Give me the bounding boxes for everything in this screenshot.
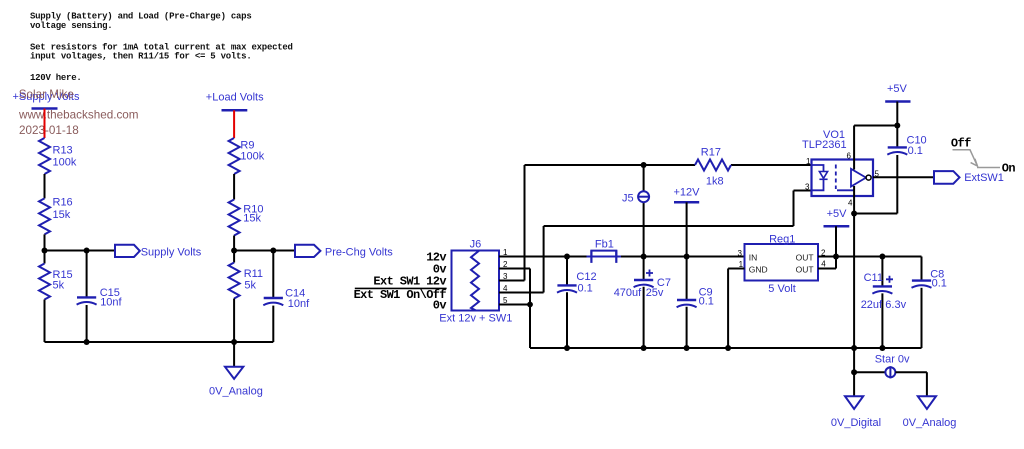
svg-text:+5V: +5V [827,208,848,220]
svg-text:+Load Volts: +Load Volts [206,92,264,104]
svg-text:Supply Volts: Supply Volts [141,246,202,258]
svg-text:15k: 15k [243,212,261,224]
svg-text:10nf: 10nf [100,296,122,308]
wire C15 branch [86,251,88,298]
wire digital bottom rail [530,347,922,349]
svg-text:0.1: 0.1 [578,282,593,294]
opto pin numbers [805,152,879,208]
wire C14 branch [272,251,274,298]
wire [44,234,46,263]
capacitor C9 [677,287,714,308]
resistor R9 [229,138,265,174]
wire C9 branch [686,257,688,349]
wire C15 bottom [86,305,88,342]
wire J6 pin2 0v [499,269,530,349]
svg-text:25v: 25v [646,287,664,299]
wire node A to flag [45,250,116,252]
ground 0V_Analog [209,367,263,398]
svg-text:22uf: 22uf [861,299,883,311]
wire node B to flag [234,250,295,252]
junction C15 top [84,248,90,254]
wire +5V stem [835,226,837,256]
svg-text:3: 3 [805,183,810,192]
ground 0V_Analog right [903,396,957,429]
svg-text:0.1: 0.1 [932,277,947,289]
svg-text:R11: R11 [244,268,263,280]
wire J6 pin1 12v rail [499,256,587,258]
opto dashed isolation line [835,165,837,190]
wire digital ground stem [853,372,855,396]
svg-text:Pre-Chg Volts: Pre-Chg Volts [325,246,393,258]
svg-text:0V_Analog: 0V_Analog [209,385,263,397]
svg-text:5k: 5k [244,280,256,292]
svg-text:+5V: +5V [887,83,908,95]
ground 0V_Digital [831,396,881,429]
svg-text:100k: 100k [53,157,77,169]
wire Reg1 OUT pin4 tie [818,257,836,269]
svg-text:4: 4 [848,198,853,207]
notes text block [30,12,293,84]
wire J6 pin4 On\Off route [499,191,812,293]
title block: author [18,88,139,137]
svg-text:Fb1: Fb1 [595,239,614,251]
wire opto pin4 down [853,196,855,348]
svg-text:1: 1 [806,157,811,166]
capacitor C14 [263,288,310,311]
svg-text:C11: C11 [864,272,883,284]
resistor R11 [229,263,263,299]
wire [44,300,46,343]
junction J5 top [641,162,647,168]
svg-text:GND: GND [749,265,768,275]
wire opto pin6 [854,126,897,160]
jumper J5 [622,191,650,204]
svg-text:3: 3 [738,249,743,258]
svg-text:R16: R16 [53,197,73,209]
svg-text:Off: Off [951,137,971,151]
svg-text:R17: R17 [701,146,721,158]
wire +5V output rail [818,257,922,281]
svg-text:J6: J6 [470,239,482,251]
wire J5 vertical [643,165,645,257]
wire opto pin5 output [873,176,934,178]
wire Reg1 GND [728,269,744,349]
resistor R10 [229,200,264,236]
power port +12V [674,187,701,203]
resistor R17 [695,146,731,187]
flag Pre-Chg Volts [295,245,393,258]
wire C8 branch [921,288,923,348]
svg-text:10nf: 10nf [288,298,310,310]
resistor R16 [39,197,73,235]
svg-text:voltage sensing.: voltage sensing. [30,21,112,31]
junction C14 top [270,248,276,254]
svg-text:J5: J5 [622,193,634,205]
svg-text:Ext 12v + SW1: Ext 12v + SW1 [439,313,512,325]
power port +Load Volts [206,92,264,111]
svg-text:R13: R13 [53,145,73,157]
svg-text:2023-01-18: 2023-01-18 [19,124,79,137]
svg-text:5k: 5k [53,280,65,292]
svg-text:100k: 100k [240,151,264,163]
junction star node [851,369,857,375]
opto pin stubs inside [853,160,855,197]
junction 12v rail dots [564,254,570,260]
flag Supply Volts [115,245,202,258]
wire C11 branch [881,257,883,349]
svg-text:www.thebackshed.com: www.thebackshed.com [18,109,139,122]
capacitor C8 [912,269,947,290]
svg-text:0.1: 0.1 [699,295,714,307]
svg-text:input voltages, then R11/15 fo: input voltages, then R11/15 for <= 5 vol… [30,52,252,62]
ferrite bead Fb1 [587,239,622,263]
svg-text:0v: 0v [433,299,447,313]
power port +5V above Reg1 [824,208,850,226]
svg-text:TLP2361: TLP2361 [802,139,847,151]
wire [233,236,235,263]
svg-text:15k: 15k [53,209,71,221]
svg-text:6.3v: 6.3v [885,299,906,311]
wire [233,174,235,200]
wire ground stem [233,342,235,367]
wire 12v rail after Fb1 [621,256,745,258]
power port +Supply Volts [13,91,80,109]
svg-text:+12V: +12V [674,187,701,199]
overline active-low [355,287,447,289]
wire [233,299,235,343]
wire analog bottom rail [45,341,274,343]
svg-text:Ext SW1 12v: Ext SW1 12v [373,275,446,289]
wire C12 branch [566,257,568,349]
wire J6 pin3 ExtSW1 12v riser [499,165,525,281]
capacitor C10 [887,135,926,157]
svg-text:0V_Analog: 0V_Analog [903,417,957,429]
svg-text:1k8: 1k8 [706,176,724,188]
wire J6 pin5 0v [499,304,530,306]
junction bottom rail dots [564,345,570,351]
junction ground node [231,339,237,345]
svg-text:5 Volt: 5 Volt [768,283,796,295]
junction C15 bottom [84,339,90,345]
wire +12V stem [686,202,688,256]
svg-text:C12: C12 [576,271,596,283]
connector J6 [439,239,512,325]
J6 pin name labels [354,251,447,313]
capacitor C12 [557,271,597,294]
wire red load stem [233,110,235,138]
svg-text:Reg1: Reg1 [769,233,795,245]
opto LED [812,165,828,190]
optocoupler VQ1 TLP2361 [802,129,873,196]
capacitor C11 [861,272,907,311]
power port +5V top [885,83,910,102]
svg-text:120V here.: 120V here. [30,73,82,83]
svg-text:IN: IN [749,253,758,263]
svg-text:OUT: OUT [796,253,814,263]
node B junction [231,248,237,254]
wire top rail ExtSW1 12v [525,164,696,166]
regulator Reg1 [738,233,827,295]
svg-text:6: 6 [847,152,852,161]
svg-text:Star 0v: Star 0v [875,354,910,366]
capacitor C15 [77,287,123,308]
J6 pin numbers [503,248,508,305]
junction pin6/+5V [894,123,900,129]
wire C14 bottom [272,306,274,342]
resistor R13 [39,138,77,174]
flag ExtSW1 [934,171,1004,184]
wire star to analog ground [895,372,927,396]
wire star 0v link [854,348,885,372]
svg-text:0.1: 0.1 [908,145,923,157]
opto output buffer [837,169,871,191]
wire red supply stem [44,109,46,139]
junction pin4 node [851,211,857,217]
svg-text:4: 4 [821,259,826,268]
capacitor C7 [614,270,671,300]
svg-text:On: On [1002,162,1016,176]
wire C10 bottom to pin4 node [854,155,897,214]
svg-text:OUT: OUT [796,265,814,275]
wire C7 branch [643,257,645,349]
annotation Off/On switch arrow [951,137,1016,176]
svg-text:ExtSW1: ExtSW1 [964,172,1004,184]
wire [44,174,46,198]
wire +5V top stem [896,102,898,148]
node A junction [42,248,48,254]
resistor R15 [39,264,73,300]
junction +5 rail [833,254,839,260]
net tie Star 0v [875,354,910,379]
svg-text:470uf: 470uf [614,287,642,299]
svg-text:Solar Mike: Solar Mike [19,88,74,101]
svg-text:0V_Digital: 0V_Digital [831,417,881,429]
wire top rail to opto [731,164,812,166]
junction pin5/pin2 [527,302,533,308]
